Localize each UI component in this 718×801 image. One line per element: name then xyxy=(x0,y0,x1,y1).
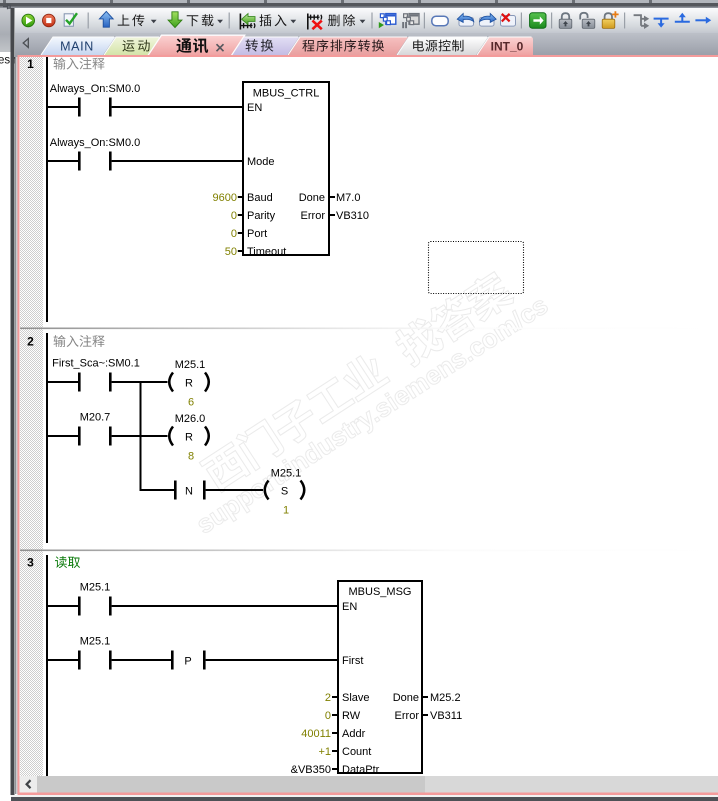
svg-text:INT_0: INT_0 xyxy=(491,40,524,54)
dotted selection rectangle xyxy=(429,242,524,294)
function block MBUS_CTRL xyxy=(243,82,329,255)
toolbar icon: discard xyxy=(501,16,516,27)
dropdown arrow xyxy=(290,20,296,23)
toolbar text 上传 xyxy=(118,14,145,26)
separator xyxy=(371,13,372,29)
svg-text:Slave: Slave xyxy=(342,692,370,704)
dropdown arrow xyxy=(151,20,157,23)
left docked panel xyxy=(0,8,11,52)
toolbar text 下载 xyxy=(187,14,214,26)
network number column xyxy=(20,57,43,776)
svg-text:3: 3 xyxy=(27,556,34,570)
svg-text:M25.1: M25.1 xyxy=(271,468,302,480)
vertical splitter bar xyxy=(11,8,15,795)
bottom window edge xyxy=(11,795,718,797)
P contact xyxy=(171,651,174,670)
separator xyxy=(88,13,89,29)
tab 转换 xyxy=(230,37,299,55)
svg-text:8: 8 xyxy=(188,451,194,463)
toolbar icon: undo xyxy=(459,18,474,27)
separator line above network 2 xyxy=(20,328,718,330)
svg-text:0: 0 xyxy=(231,228,237,240)
svg-text:1: 1 xyxy=(283,505,289,517)
toolbar icon: download arrow xyxy=(168,12,182,28)
svg-text:Mode: Mode xyxy=(247,156,275,168)
toolbar icon: redo xyxy=(480,18,495,27)
svg-text:Done: Done xyxy=(299,192,325,204)
separator xyxy=(551,13,552,29)
svg-text:2: 2 xyxy=(27,335,34,349)
toolbar icon: delete network xyxy=(307,14,309,30)
svg-text:&VB350: &VB350 xyxy=(291,764,331,776)
svg-text:50: 50 xyxy=(225,246,237,258)
tab scroll left button xyxy=(23,39,28,48)
svg-text:M25.1: M25.1 xyxy=(175,359,206,371)
toolbar icon: chart status paused (gray) xyxy=(409,14,419,25)
svg-text:EN: EN xyxy=(342,601,357,613)
svg-text:Baud: Baud xyxy=(247,192,273,204)
separator xyxy=(521,13,522,29)
svg-text:2: 2 xyxy=(325,692,331,704)
toolbar icon: run (green play) xyxy=(22,14,35,27)
svg-text:Port: Port xyxy=(247,228,267,240)
svg-text:VB310: VB310 xyxy=(336,210,369,222)
toolbar icon: add lock (yellow) xyxy=(605,13,612,19)
svg-text:M26.0: M26.0 xyxy=(175,413,206,425)
network 1 left power rail xyxy=(46,57,48,322)
separator xyxy=(229,13,230,29)
svg-text:RW: RW xyxy=(342,710,361,722)
function block MBUS_MSG xyxy=(338,581,422,773)
dropdown arrow xyxy=(217,20,223,23)
network 3 left power rail xyxy=(46,555,48,776)
svg-text:40011: 40011 xyxy=(301,728,331,740)
svg-text:Count: Count xyxy=(342,746,371,758)
svg-text:Always_On:SM0.0: Always_On:SM0.0 xyxy=(50,137,140,149)
toolbar icon: stop (red) xyxy=(43,14,56,27)
toolbar icon: line up xyxy=(675,17,690,22)
tab MAIN xyxy=(41,37,115,55)
svg-text:Timeout: Timeout xyxy=(247,246,286,258)
tab 通讯 (active) xyxy=(148,35,246,55)
top cropped toolbar strip xyxy=(0,0,718,8)
toolbar icon: insert network xyxy=(240,14,242,30)
svg-text:MBUS_CTRL: MBUS_CTRL xyxy=(253,88,320,100)
svg-text:Parity: Parity xyxy=(247,210,276,222)
pushpin icon xyxy=(3,4,10,9)
svg-text:1: 1 xyxy=(27,57,34,71)
close x on active tab xyxy=(217,44,224,51)
svg-text:M25.1: M25.1 xyxy=(80,636,111,648)
separator xyxy=(624,13,625,29)
svg-text:P: P xyxy=(184,656,191,668)
tab 电源控制 xyxy=(397,37,488,55)
svg-text:M25.1: M25.1 xyxy=(80,582,111,594)
svg-text:First_Sca~:SM0.1: First_Sca~:SM0.1 xyxy=(52,358,140,370)
svg-text:0: 0 xyxy=(325,710,331,722)
toolbar icon: line down xyxy=(654,19,669,24)
svg-text:0: 0 xyxy=(231,210,237,222)
svg-text:MBUS_MSG: MBUS_MSG xyxy=(349,586,412,598)
toolbar icon: upload arrow xyxy=(99,11,113,27)
svg-text:M25.2: M25.2 xyxy=(430,692,461,704)
svg-text:S: S xyxy=(281,485,288,497)
vertical branch line xyxy=(140,381,142,491)
main toolbar background xyxy=(15,8,718,33)
watermark (rotated outline text) xyxy=(168,255,553,540)
toolbar icon: program status (blue) xyxy=(386,14,396,25)
toolbar text 删除 xyxy=(328,14,355,26)
svg-text:R: R xyxy=(185,431,193,443)
svg-text:6: 6 xyxy=(188,397,194,409)
N contact branch rung xyxy=(141,489,174,491)
tab INT_0 xyxy=(477,37,533,55)
dropdown arrow xyxy=(360,20,366,23)
svg-text:Error: Error xyxy=(395,710,420,722)
svg-text:9600: 9600 xyxy=(213,192,237,204)
network 2 left power rail xyxy=(46,333,48,543)
svg-text:+1: +1 xyxy=(318,746,331,758)
svg-text:Addr: Addr xyxy=(342,728,366,740)
svg-text:R: R xyxy=(185,377,193,389)
toolbar icon: compile check xyxy=(64,14,73,26)
toolbar icon: go xyxy=(530,13,546,28)
tab 运动 xyxy=(104,37,160,55)
separator xyxy=(424,13,425,29)
tab bar background xyxy=(15,33,718,57)
toolbar icon: box xyxy=(432,16,448,26)
svg-text:N: N xyxy=(185,486,193,498)
pink content frame xyxy=(18,55,718,57)
toolbar icon: line right xyxy=(695,19,706,21)
tab 程序排序转换 xyxy=(288,37,408,55)
svg-text:Done: Done xyxy=(393,692,419,704)
svg-text:Error: Error xyxy=(301,210,326,222)
svg-text:MAIN: MAIN xyxy=(60,40,94,54)
toolbar icon: lock closed xyxy=(562,13,569,19)
svg-text:DataPtr: DataPtr xyxy=(342,764,380,776)
toolbar text 插入 xyxy=(259,14,286,26)
horizontal scrollbar xyxy=(20,776,718,793)
toolbar icon: branch lines xyxy=(634,15,645,26)
separator line above network 3 xyxy=(20,550,718,552)
svg-text:VB311: VB311 xyxy=(430,710,462,722)
svg-text:EN: EN xyxy=(247,102,262,114)
svg-text:First: First xyxy=(342,655,363,667)
svg-text:Always_On:SM0.0: Always_On:SM0.0 xyxy=(50,83,140,95)
toolbar icon: lock open xyxy=(580,13,587,20)
svg-text:M7.0: M7.0 xyxy=(336,192,360,204)
svg-text:M20.7: M20.7 xyxy=(80,412,111,424)
